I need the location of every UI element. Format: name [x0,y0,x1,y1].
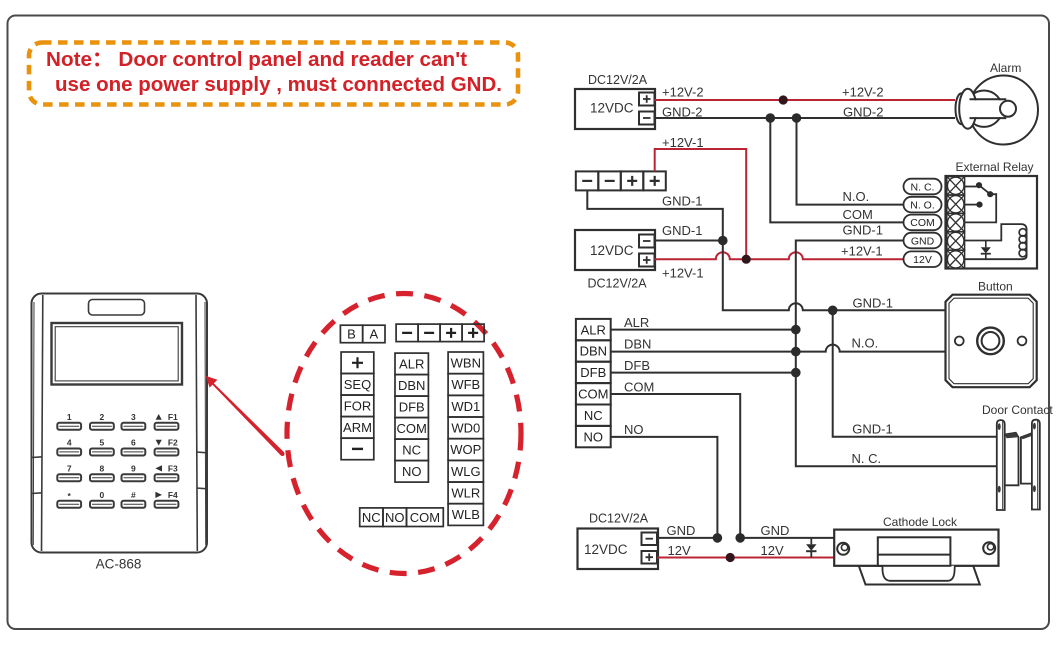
keypad side lines [42,295,43,551]
svg-text:GND-2: GND-2 [843,105,883,120]
wire GND-1 (strip - down to junction) [587,190,723,240]
svg-text:Note： Door control panel and: Note： Door control panel and reader can'… [46,48,467,71]
svg-text:Cathode Lock: Cathode Lock [883,515,958,529]
svg-text:F1: F1 [168,412,178,422]
junction dots on red wires [726,95,788,562]
keypad side ticks [32,456,43,459]
svg-text:4: 4 [67,438,72,448]
wire DBN to button N.O. (hop) [611,345,946,352]
terminal strip left col + SEQ FOR ARM - [341,352,374,460]
svg-text:12VDC: 12VDC [590,101,634,116]
relay terminal hatch cells [947,177,965,269]
svg-text:use one power supply , must co: use one power supply , must connected GN… [55,73,502,96]
svg-text:Alarm: Alarm [990,61,1021,75]
svg-text:DFB: DFB [580,365,606,380]
svg-text:#: # [131,490,136,500]
keypad key labels [67,412,178,501]
lock screws [837,543,849,555]
svg-text:WLG: WLG [451,464,481,479]
cathode lock [834,530,998,585]
svg-text:A: A [369,327,378,342]
svg-text:B: B [347,327,356,342]
svg-text:WOP: WOP [450,442,481,457]
wire COM (down to lock GND side) [611,394,741,538]
power supply PSU1 12VDC (top) [575,89,655,129]
svg-text:8: 8 [100,463,105,473]
svg-text:ALR: ALR [399,357,424,372]
terminal column ALR DBN DFB COM NC NO (panel outputs) [576,319,611,447]
power supply PSU2 12VDC (middle) [575,230,655,270]
svg-text:SEQ: SEQ [344,377,371,392]
svg-text:GND-1: GND-1 [843,223,883,238]
keypad keys [57,423,178,508]
svg-text:DBN: DBN [398,378,425,393]
button plate [946,295,1037,388]
red pointer arrow head [206,376,218,388]
svg-text:9: 9 [131,463,136,473]
svg-text:DC12V/2A: DC12V/2A [588,277,648,291]
svg-text:NO: NO [584,429,604,444]
svg-text:FOR: FOR [344,399,371,414]
svg-text:ALR: ALR [624,315,649,330]
wire GND-1 branch to door contact [833,310,997,437]
wire GND-2 (PSU1- to alarm) [655,117,956,119]
button center [977,328,1004,355]
red pointer arrow shaft [212,383,284,456]
svg-text:12VDC: 12VDC [590,243,634,258]
svg-text:GND-1: GND-1 [662,194,702,209]
svg-text:GND: GND [667,523,696,538]
wire GND-1 (junction down and to button, hop) [723,241,946,311]
wire GND-2 branch to relay COM [770,118,903,222]
power supply PSU3 12VDC (bottom) [578,529,659,570]
diode D1 (relay flyback) [985,241,987,260]
svg-text:ARM: ARM [343,420,372,435]
ELLIPSE_TERMINALS [287,294,521,574]
svg-text:COM: COM [910,217,935,229]
door contact right piece [1021,420,1040,510]
svg-text:F2: F2 [168,438,178,448]
svg-text:NC: NC [402,443,421,458]
svg-text:WD0: WD0 [451,421,480,436]
note dashed border [29,43,518,105]
svg-text:F3: F3 [168,463,178,473]
svg-text:WD1: WD1 [451,399,480,414]
wire GND (PSU3- to NO junction) [657,537,717,539]
svg-text:+12V-1: +12V-1 [662,135,704,150]
relay switch N.O. contact [965,204,977,206]
alarm (siren) [956,76,1039,145]
svg-text:N. O.: N. O. [910,199,935,211]
wire +12V-2 (red, PSU1+ to alarm) [655,99,956,101]
svg-text:DBN: DBN [624,337,651,352]
svg-text:N. C.: N. C. [911,181,935,193]
KEYPAD [32,294,208,572]
svg-text:N.O.: N.O. [852,336,879,351]
lock faceplate [834,530,998,566]
svg-text:NO: NO [402,464,422,479]
svg-text:Door Contact: Door Contact [982,403,1053,417]
svg-text:6: 6 [131,438,136,448]
svg-text:WFB: WFB [451,377,480,392]
terminal strip right col WBN..WLB [448,352,483,525]
terminal strip mid col ALR DBN DFB COM NC NO [395,353,428,482]
wire GND (COM junction to lock) [740,537,834,539]
lock keeper [878,537,951,566]
external relay box [946,176,1038,269]
svg-text:2: 2 [100,412,105,422]
lock strike 3D body [859,566,980,585]
svg-text:12V: 12V [913,254,932,266]
svg-text:DFB: DFB [624,358,650,373]
wire ALR [611,329,796,331]
terminal strip relay NC NO COM [360,508,444,527]
wire GND-2 branch to relay N.O. [797,118,904,205]
svg-text:COM: COM [397,421,427,436]
svg-text:7: 7 [67,463,72,473]
relay common arm to COM [965,194,997,222]
PSU3 terminal - [642,533,658,546]
svg-text:5: 5 [100,438,105,448]
svg-text:GND-2: GND-2 [662,105,702,120]
button screws [955,337,964,346]
svg-text:+12V-1: +12V-1 [662,266,704,281]
svg-text:12V: 12V [668,543,691,558]
svg-text:WLB: WLB [452,507,480,522]
svg-text:WLR: WLR [451,486,480,501]
door contact left piece [997,420,1019,510]
svg-text:COM: COM [410,510,440,525]
svg-text:N.O.: N.O. [843,189,870,204]
svg-text:COM: COM [843,207,873,222]
svg-text:DC12V/2A: DC12V/2A [588,73,648,87]
svg-text:GND-1: GND-1 [662,223,702,238]
svg-text:12VDC: 12VDC [584,542,628,557]
wire NO (down to PSU3 GND side) [611,437,718,538]
wire +12V-1 (red, strip + up and over) [655,149,747,259]
svg-text:ALR: ALR [581,322,606,337]
svg-text:0: 0 [100,490,105,500]
PSU2 terminal + [639,254,655,267]
red dashed ellipse [287,294,521,574]
svg-text:DBN: DBN [580,344,607,359]
wire DFB [611,372,796,374]
svg-text:N. C.: N. C. [852,451,882,466]
svg-text:AC-868: AC-868 [96,557,142,572]
relay pin ovals [904,179,942,267]
svg-text:NO: NO [624,422,644,437]
PSU2 terminal - [639,235,655,248]
PSU3 terminal + [642,551,658,564]
svg-text:GND: GND [911,235,935,247]
ARROW [206,376,285,456]
terminal strip B-A [340,325,385,343]
keypad display [52,323,183,385]
svg-text:NC: NC [362,510,381,525]
svg-text:NC: NC [584,408,603,423]
relay switch N.C. contact [965,186,977,188]
svg-text:+12V-1: +12V-1 [841,244,883,259]
svg-text:GND-1: GND-1 [853,296,893,311]
svg-text:GND-1: GND-1 [852,422,892,437]
wire GND-1 chain relay GND / ALR / door N.C. [796,241,997,467]
relay coil loops [1019,229,1026,257]
keypad top slot [89,300,145,316]
svg-text:3: 3 [131,412,136,422]
wire 12V (red, PSU3+ to lock) [657,557,834,559]
svg-text:COM: COM [578,387,608,402]
wire GND-1 (PSU2- to junction) [655,240,723,242]
lock flap [883,566,955,581]
keypad body [32,294,208,553]
svg-text:+12V-2: +12V-2 [842,85,884,100]
svg-text:COM: COM [624,380,654,395]
svg-text:DFB: DFB [399,400,425,415]
junction dots [713,113,838,543]
svg-text:+12V-2: +12V-2 [662,85,704,100]
PSU1 terminal + [639,93,655,106]
svg-text:Button: Button [978,280,1013,294]
svg-text:NO: NO [385,510,405,525]
svg-text:GND: GND [761,523,790,538]
svg-text:1: 1 [67,412,72,422]
svg-text:F4: F4 [168,490,178,500]
NOTE_BOX [29,43,518,105]
svg-text:12V: 12V [761,543,784,558]
svg-text:External Relay: External Relay [956,160,1034,174]
terminal strip reader power - - + + [396,324,484,342]
svg-text:DC12V/2A: DC12V/2A [589,512,649,526]
diode D2 (flyback across cathode lock) [806,538,816,558]
terminal strip - - + + (power input, middle) [576,171,666,190]
svg-text:WBN: WBN [451,355,481,370]
wire +12V-1 (red, PSU2+ to relay 12V with hops) [655,252,904,259]
relay coil circuit [965,224,1027,240]
PSU1 terminal - [639,112,655,125]
